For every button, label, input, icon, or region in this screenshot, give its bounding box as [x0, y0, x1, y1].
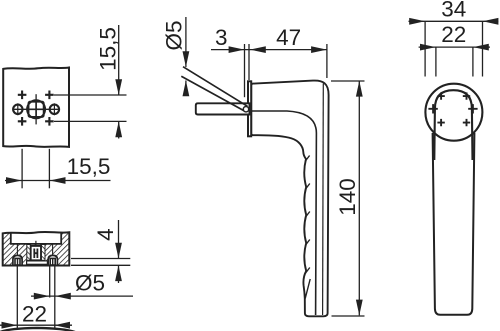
screw hole right — [50, 105, 59, 114]
partial arc of next view at bottom edge — [0, 328, 75, 331]
section bottom edge — [3, 265, 70, 267]
svg-text:3: 3 — [215, 25, 228, 50]
spindle square hole section — [31, 246, 41, 260]
insert strip right (opposite hatch) — [41, 245, 45, 261]
mark cross top-right — [45, 91, 54, 100]
svg-text:15,5: 15,5 — [67, 154, 111, 179]
pin end circle — [243, 107, 248, 112]
svg-text:22: 22 — [441, 22, 466, 47]
rosette circle — [425, 84, 482, 141]
grip rear edge line — [322, 84, 325, 316]
grip groove ticks — [305, 156, 310, 299]
mark cross bottom-right — [45, 117, 54, 126]
spindle H insert — [34, 249, 37, 259]
svg-text:Ø5: Ø5 — [75, 271, 105, 296]
dimension 3 and 47 (top) — [211, 44, 327, 97]
dimension 140 (handle length) — [331, 81, 365, 316]
locking pin (diagonal) — [181, 67, 247, 111]
dimension 15,5 horizontal (hole column spacing) — [5, 149, 111, 189]
cross mid-right — [468, 104, 477, 113]
handle body outline — [251, 81, 328, 317]
screw left slot — [15, 258, 20, 265]
svg-text:22: 22 — [22, 301, 47, 326]
insert strip left (opposite hatch) — [27, 245, 31, 261]
dimension 4 (plate thickness) — [71, 220, 130, 283]
cross top-left — [437, 92, 444, 99]
square spindle hole — [29, 102, 44, 117]
svg-text:34: 34 — [441, 0, 466, 22]
svg-text:4: 4 — [93, 228, 118, 241]
cross low-left — [437, 119, 444, 126]
svg-text:15,5: 15,5 — [95, 27, 120, 71]
dimension Ø5 (pin) — [185, 17, 187, 94]
plate outline with break edges — [3, 68, 69, 147]
cross top-right — [463, 92, 470, 99]
rosette bar (side) — [248, 81, 251, 136]
grip neck with round top — [434, 90, 472, 160]
mark cross bottom-left — [18, 117, 27, 126]
section body hatched — [3, 232, 70, 266]
central circle — [27, 100, 45, 118]
cross mid-left — [428, 104, 437, 113]
dimension Ø5 (screw hole) — [31, 266, 133, 330]
dimension 34 (rosette width) — [409, 21, 499, 76]
svg-text:140: 140 — [335, 178, 360, 216]
svg-text:Ø5: Ø5 — [161, 20, 186, 50]
dimension 15,5 vertical (hole row spacing) — [54, 25, 127, 139]
bottom slot — [27, 261, 48, 264]
svg-text:47: 47 — [276, 25, 301, 50]
horizontal centerline through holes — [13, 108, 60, 110]
screw centerline left — [16, 245, 18, 256]
screw hole section left — [13, 255, 22, 265]
arm inner edge curving into grip — [252, 111, 317, 315]
vertical centerline of square hole — [35, 94, 37, 124]
dimension 22 (screw spacing, bottom) — [0, 266, 72, 330]
section outline — [3, 232, 70, 266]
screw hole section right — [48, 255, 57, 265]
screw centerline right — [52, 245, 54, 256]
cross low-right — [463, 119, 470, 126]
centerline above square — [35, 241, 37, 246]
recess cavity — [11, 231, 61, 244]
grip silhouette — [433, 133, 475, 315]
square hole cross lines — [29, 102, 43, 116]
spindle bar — [196, 103, 250, 114]
screw right slot — [50, 258, 55, 265]
screw hole left — [13, 105, 22, 114]
dimension 22 (grip width) — [419, 47, 490, 76]
mark cross top-left — [18, 91, 27, 100]
